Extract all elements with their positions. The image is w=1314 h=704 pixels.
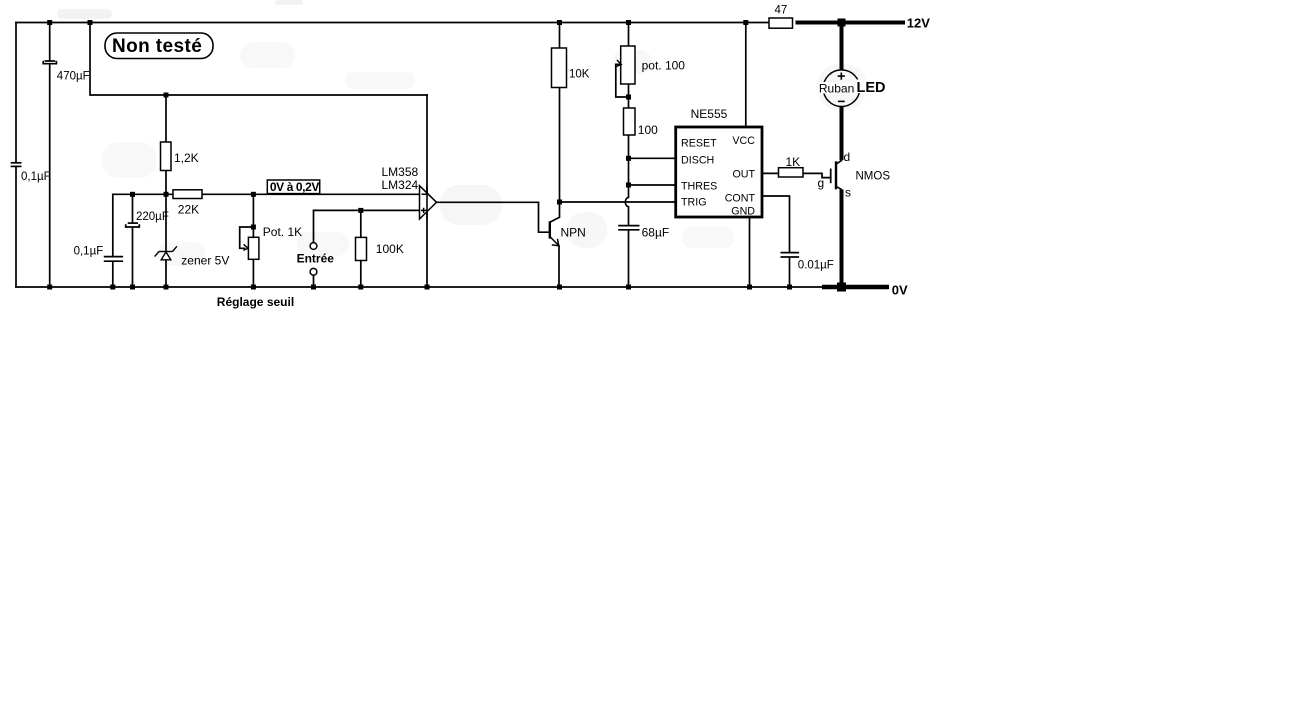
text LED on white: [856, 80, 886, 97]
wire 1,2K branch: [165, 95, 167, 194]
NMOS channel bar: [835, 161, 837, 189]
svg-text:100: 100: [638, 123, 658, 137]
svg-text:68µF: 68µF: [642, 226, 670, 240]
svg-text:RESET: RESET: [681, 137, 717, 149]
LED Ruban circle: [823, 70, 860, 107]
junction 12V rail: [838, 19, 846, 27]
junction 0V NMOS: [837, 283, 846, 292]
resistor 1,2K: [161, 142, 172, 171]
wire 100K branch: [360, 210, 362, 287]
wire pot 1K wiper: [240, 227, 254, 248]
thick wire 12V to LED: [840, 23, 844, 70]
faint scan noise: [57, 0, 867, 266]
svg-text:CONT: CONT: [725, 193, 756, 205]
wire NPN collector: [550, 202, 559, 222]
value box 0V a 0,2V: [267, 180, 319, 194]
svg-text:zener 5V: zener 5V: [181, 254, 229, 268]
svg-text:Réglage seuil: Réglage seuil: [217, 295, 294, 309]
potentiometer Pot. 1K body: [248, 237, 259, 259]
resistor 10K: [552, 48, 567, 88]
capacitor 0,1uF second: [104, 257, 123, 262]
svg-text:22K: 22K: [178, 203, 199, 217]
wire 0,1uF second branch: [112, 194, 114, 287]
svg-text:470µF: 470µF: [57, 70, 90, 82]
capacitor 0,1uF left: [11, 163, 22, 167]
svg-text:100K: 100K: [376, 242, 404, 256]
thick wire NMOS source to 0V: [840, 190, 844, 288]
wire 470uF branch: [49, 23, 51, 288]
svg-text:VCC: VCC: [732, 135, 755, 147]
wire 10K bottom to node: [559, 88, 561, 203]
op-amp minus sign: [422, 193, 427, 195]
svg-text:Entrée: Entrée: [297, 251, 335, 265]
wire pot 100 bottom: [628, 84, 630, 108]
svg-text:GND: GND: [731, 205, 755, 217]
wire Entree input to plus input: [314, 210, 420, 242]
svg-text:TRIG: TRIG: [681, 197, 707, 209]
svg-text:220µF: 220µF: [136, 211, 169, 223]
capacitor 220uF: [126, 223, 140, 227]
wire bottom 0V rail: [16, 286, 822, 288]
capacitor 470uF: [43, 61, 56, 64]
NPN emitter arrowhead: [552, 239, 559, 246]
potentiometer pot. 100 body: [621, 46, 635, 84]
svg-text:0V à 0,2V: 0V à 0,2V: [270, 180, 320, 194]
wire GND to 0V: [749, 217, 751, 287]
wire op-amp output to NPN base: [437, 202, 549, 232]
resistor 100: [624, 108, 636, 135]
wire pot 100 top: [628, 23, 630, 47]
wire threshold line to op-amp minus input: [113, 193, 420, 195]
svg-text:DISCH: DISCH: [681, 154, 714, 166]
svg-text:1,2K: 1,2K: [174, 151, 199, 165]
terminal Entree upper: [310, 243, 317, 250]
svg-text:0V: 0V: [892, 282, 908, 297]
svg-text:47: 47: [775, 5, 788, 17]
svg-text:d: d: [844, 150, 851, 164]
svg-text:THRES: THRES: [681, 181, 717, 193]
svg-text:10K: 10K: [569, 69, 590, 81]
NE555 U2 box: [676, 127, 762, 217]
resistor 1K: [779, 168, 804, 177]
LED minus sign: [838, 100, 845, 102]
svg-text:12V: 12V: [907, 16, 930, 31]
svg-text:1K: 1K: [786, 155, 801, 169]
svg-text:OUT: OUT: [732, 169, 755, 181]
wire NPN emitter to 0V: [558, 246, 560, 287]
wire Entree lower to 0V: [313, 275, 315, 287]
transistor Q2 NMOS gate bar: [830, 169, 832, 184]
terminal Entree lower: [310, 268, 317, 275]
wire 1K to gate: [803, 173, 831, 177]
resistor 22K: [173, 190, 202, 199]
svg-text:NE555: NE555: [691, 107, 728, 121]
svg-text:NMOS: NMOS: [856, 171, 891, 183]
op-amp vertical wire overlay: [426, 186, 428, 219]
wire 10K top: [559, 23, 561, 49]
NPN emitter diagonal: [550, 237, 559, 246]
svg-text:s: s: [845, 186, 851, 200]
wire pot 100 wiper: [616, 64, 629, 97]
svg-text:Ruban: Ruban: [819, 81, 854, 95]
label box Non teste: [105, 33, 213, 59]
junction dots: [47, 20, 792, 290]
wire CONT to 0.01uF: [762, 196, 790, 287]
thick wire LED to NMOS drain: [840, 107, 844, 161]
svg-text:Non testé: Non testé: [112, 36, 202, 57]
wire pot 1K branch: [252, 194, 254, 287]
pot 100 wiper arrow: [617, 60, 622, 67]
0V thick rail: [822, 285, 889, 290]
wire 100 to timing node with hop over TRIG: [625, 135, 628, 287]
svg-text:0,1µF: 0,1µF: [74, 245, 104, 257]
NMOS source diagonal: [837, 187, 843, 190]
pot 1K wiper arrow: [243, 244, 248, 250]
resistor 100K: [356, 237, 367, 260]
svg-text:LED: LED: [857, 80, 886, 96]
resistor 47: [769, 18, 793, 28]
wire THRES line: [629, 184, 676, 186]
NMOS drain diagonal: [837, 160, 843, 164]
capacitor 0.01uF: [781, 253, 800, 257]
svg-text:NPN: NPN: [561, 226, 586, 240]
capacitor 68uF: [618, 226, 639, 230]
svg-text:LM358: LM358: [382, 165, 419, 179]
wire vertical through op-amp to 0V: [426, 95, 428, 287]
wire top 12V rail: [16, 22, 769, 24]
transistor Q1 NPN base bar: [549, 221, 551, 238]
wire node to TRIG: [560, 201, 676, 203]
wire supply drop to threshold network: [90, 23, 427, 96]
svg-text:0.01µF: 0.01µF: [798, 259, 834, 271]
wire zener branch: [165, 194, 167, 287]
svg-text:g: g: [818, 176, 825, 190]
svg-text:pot. 100: pot. 100: [642, 59, 686, 73]
wire DISCH line: [629, 157, 676, 159]
wire OUT to 1K: [762, 172, 779, 174]
zener diode 5V: [155, 246, 177, 259]
text Ruban on white: [818, 81, 854, 95]
svg-text:LM324: LM324: [382, 178, 419, 192]
svg-text:Pot. 1K: Pot. 1K: [263, 225, 302, 239]
wire 220uF branch: [132, 194, 134, 287]
wire VCC line: [745, 23, 747, 128]
12V thick rail: [796, 21, 906, 25]
op-amp plus sign: [421, 208, 426, 213]
LED plus sign: [838, 73, 845, 80]
wire left vertical 0,1uF branch: [15, 23, 17, 288]
op-amp U1 LM358 triangle: [420, 186, 437, 219]
svg-text:0,1µF: 0,1µF: [21, 171, 51, 183]
